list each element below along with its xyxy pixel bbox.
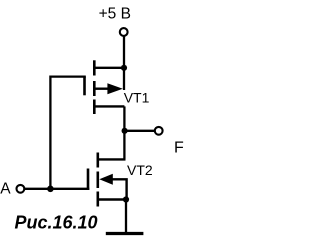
wire VT1 drain lead: [94, 105, 124, 107]
wire to F terminal: [124, 130, 154, 132]
wire A to VT1 gate: [50, 77, 85, 189]
VT2 substrate arrow: [99, 174, 113, 185]
VT2 channel segments: [97, 153, 100, 168]
junction VT1 source node: [121, 65, 127, 71]
VT2 gate bar: [87, 169, 90, 191]
wire input A: [25, 188, 90, 190]
wire to ground: [125, 200, 127, 233]
VT1 substrate arrow: [94, 87, 110, 89]
wire +5V vertical: [123, 36, 125, 90]
VT1 gate bar: [83, 77, 86, 96]
svg-text:Рис.16.10: Рис.16.10: [15, 212, 98, 232]
wire VT2 source lead: [98, 198, 127, 200]
svg-text:+5 В: +5 В: [99, 6, 131, 23]
terminal F: [155, 127, 163, 135]
wire VT2 drain lead: [98, 158, 126, 160]
wire VT1 source lead: [94, 67, 124, 69]
svg-text:VT1: VT1: [124, 89, 150, 105]
wire output vertical: [123, 106, 125, 159]
transistor VT1: [85, 60, 123, 114]
ground: [106, 232, 144, 235]
svg-text:VT2: VT2: [127, 162, 153, 178]
svg-text:F: F: [174, 140, 184, 157]
junction VT2 source node: [123, 196, 129, 202]
terminal A: [17, 185, 25, 193]
VT1 channel segments: [93, 60, 96, 75]
svg-text:А: А: [0, 180, 11, 197]
terminal +5 V: [120, 28, 128, 36]
junction input node A: [47, 186, 54, 193]
transistor VT2: [88, 153, 127, 207]
junction output node: [122, 128, 128, 134]
